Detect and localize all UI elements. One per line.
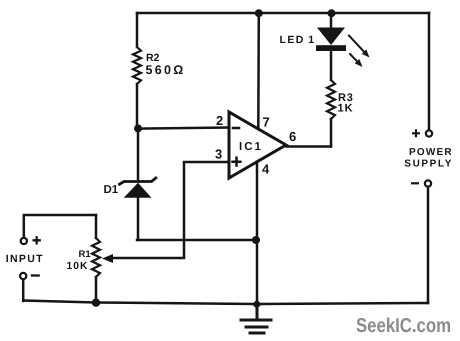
svg-text:1K: 1K bbox=[338, 103, 354, 115]
ground bbox=[241, 304, 271, 333]
wire pot top lead bbox=[95, 215, 98, 238]
resistor R3 bbox=[327, 80, 335, 119]
wire input plus to pot top bbox=[24, 215, 96, 238]
node junction top rail LED bbox=[328, 9, 336, 17]
input plus terminal bbox=[21, 238, 27, 244]
svg-text:R1: R1 bbox=[79, 249, 92, 260]
wire pot bottom lead bbox=[95, 277, 98, 303]
svg-text:10K: 10K bbox=[67, 261, 89, 272]
wire R3 bottom bbox=[330, 119, 333, 147]
wire top rail bbox=[137, 12, 429, 15]
node junction D1/pin4 line bbox=[252, 236, 260, 244]
svg-text:IC1: IC1 bbox=[239, 141, 263, 153]
svg-text:560Ω: 560Ω bbox=[146, 63, 186, 77]
diode D1 zener bbox=[120, 178, 156, 198]
svg-text:3: 3 bbox=[215, 147, 222, 162]
wire supply minus down bbox=[427, 187, 430, 303]
potentiometer R1 bbox=[92, 238, 100, 277]
wire left branch top bbox=[136, 13, 139, 47]
wire pin7 from top rail bbox=[257, 13, 260, 129]
power supply minus terminal bbox=[425, 180, 431, 186]
LED LED1 bbox=[316, 28, 370, 68]
wire right branch to supply plus bbox=[428, 13, 431, 130]
wire pot wiper to pin3 bbox=[110, 162, 229, 258]
pot wiper arrowhead bbox=[102, 254, 113, 263]
wire D1 to ground line bbox=[137, 239, 256, 242]
svg-text:SeekIC.com: SeekIC.com bbox=[356, 315, 451, 337]
svg-text:2: 2 bbox=[216, 113, 223, 128]
svg-text:INPUT: INPUT bbox=[6, 253, 44, 265]
node junction bottom rail ground bbox=[252, 300, 262, 309]
wire pin4 down to ground bbox=[256, 162, 259, 304]
svg-text:LED 1: LED 1 bbox=[280, 34, 316, 46]
op-amp plus input sign bbox=[231, 157, 241, 167]
power supply plus sign bbox=[412, 129, 420, 137]
svg-text:4: 4 bbox=[262, 162, 270, 177]
op-amp IC1 bbox=[229, 112, 286, 178]
wire input minus down bbox=[22, 279, 25, 301]
wire D1 bottom lead bbox=[137, 197, 140, 240]
input minus sign bbox=[31, 274, 40, 276]
wire bottom rail bbox=[24, 301, 428, 305]
wire LED to R3 bbox=[330, 52, 333, 80]
input minus terminal bbox=[20, 273, 26, 279]
op-amp minus input sign bbox=[232, 127, 241, 130]
node junction pot bottom rail bbox=[92, 299, 100, 307]
wire R2 bottom bbox=[136, 84, 139, 128]
svg-text:D1: D1 bbox=[104, 184, 119, 196]
input plus sign bbox=[33, 236, 41, 244]
svg-text:6: 6 bbox=[289, 129, 296, 144]
node junction top rail pin7 bbox=[255, 9, 263, 17]
resistor R2 bbox=[133, 47, 141, 84]
svg-text:POWER: POWER bbox=[409, 147, 453, 158]
wire D1 top lead bbox=[137, 128, 140, 179]
wire pin2 to op-amp bbox=[138, 128, 229, 129]
svg-text:7: 7 bbox=[263, 115, 270, 130]
svg-text:SUPPLY: SUPPLY bbox=[404, 159, 453, 170]
power supply plus terminal bbox=[426, 130, 432, 136]
wire LED top lead bbox=[330, 13, 333, 28]
power supply minus sign bbox=[411, 182, 419, 184]
wire pin6 output bbox=[287, 145, 332, 148]
node junction R2/pin2/D1 bbox=[134, 124, 142, 132]
